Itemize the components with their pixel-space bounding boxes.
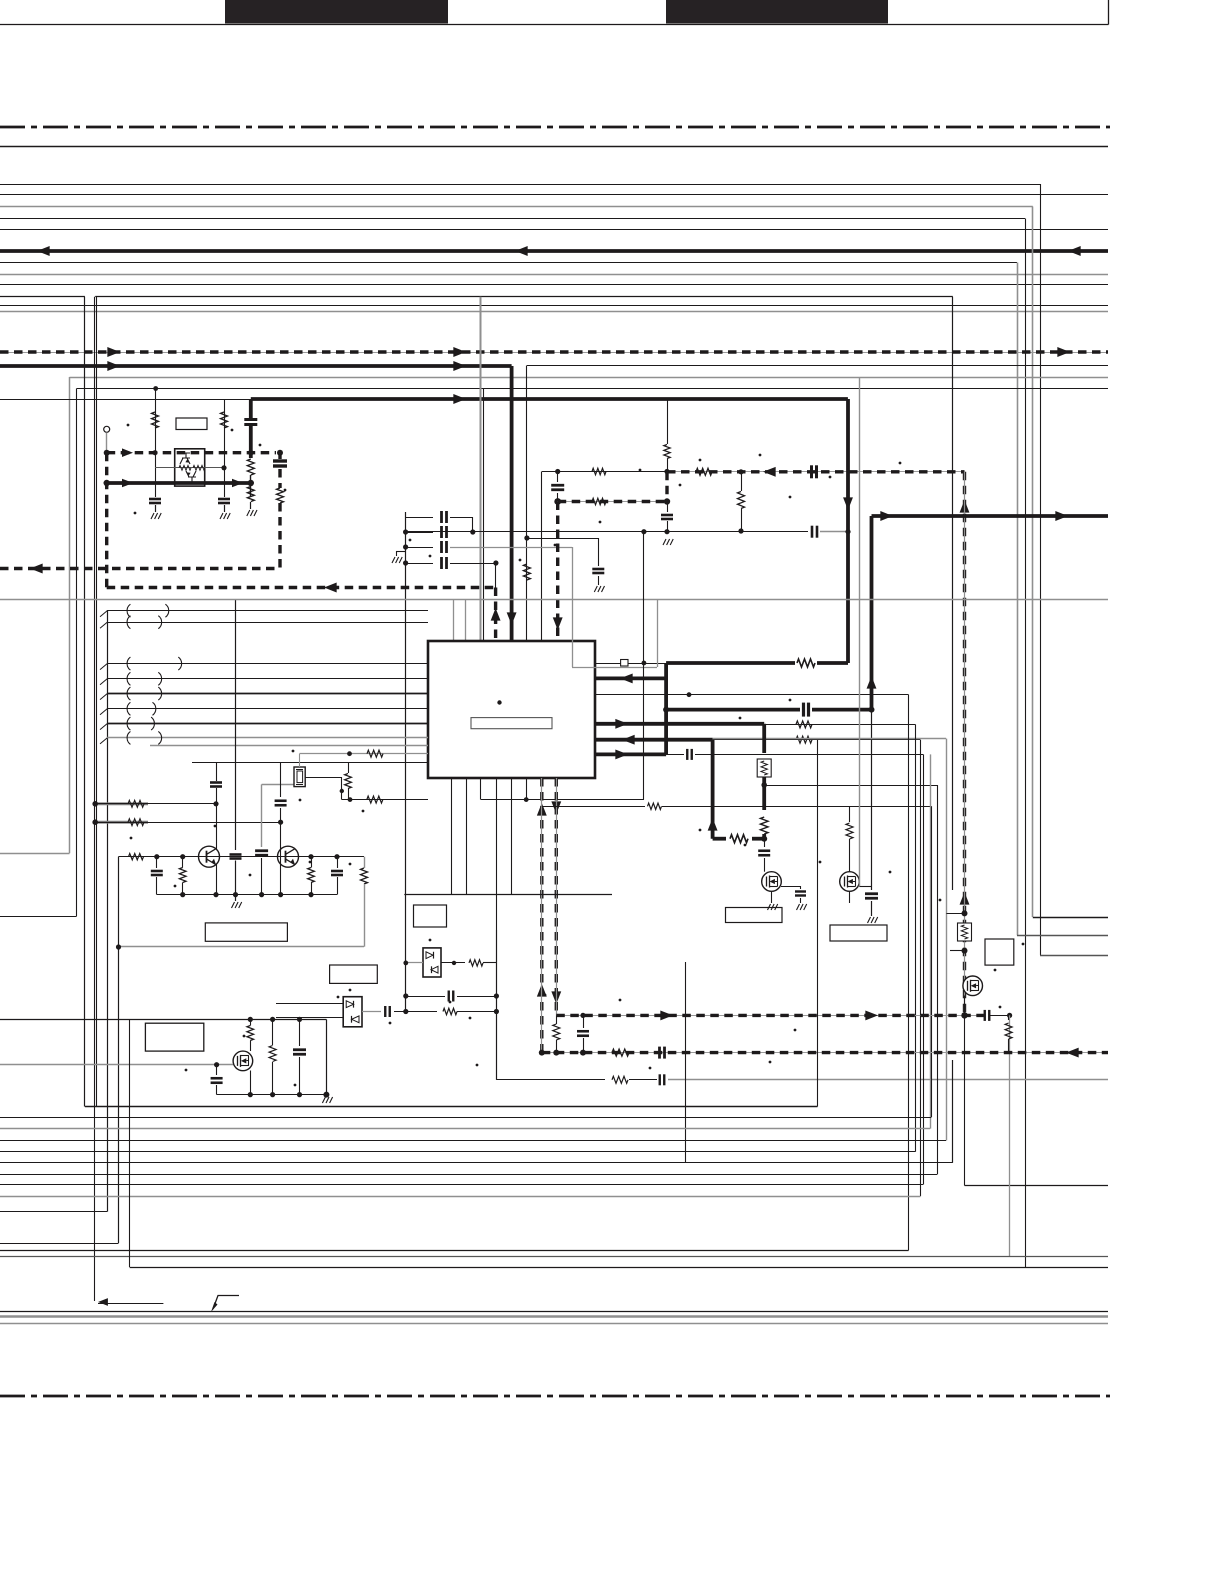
bus return y1106.5 [85, 1106, 818, 1108]
MOSFET Q6 [233, 1051, 253, 1071]
riser x685.8 [685, 962, 687, 1163]
dashed left edge x106.7 [105, 453, 108, 588]
gray y738.6 [713, 738, 947, 740]
dashed pin x541.8 down [540, 778, 543, 1053]
thick pin y723.8 to riser [595, 722, 764, 726]
net y471.5 thin with resistor [542, 471, 667, 473]
dashed underlay x556.3 gray [556, 778, 558, 1015]
gray leg x261.6 with cap [261, 784, 263, 847]
IC input gray y745.6 [150, 745, 428, 747]
IC input gray y753.7 with resistor [300, 753, 429, 755]
box left edge x84.9 [84, 297, 86, 1107]
riser x496.4 [496, 930, 498, 1080]
thin continuation y365.5 [527, 365, 1108, 367]
diode pack D3 [343, 997, 362, 1027]
wrap riser x908.6 [908, 695, 910, 1251]
box A right edge x952.8 [952, 297, 954, 890]
boxed resistor on dashed [958, 923, 972, 941]
wrap riser x930.1 gray [930, 754, 932, 1128]
rail y1311 [0, 1311, 1108, 1313]
dashed link x667 [665, 472, 668, 502]
IC input wire 3 [100, 664, 107, 670]
crystal X1 [294, 767, 305, 787]
wrap riser x931.4 [931, 806, 933, 1117]
wrap bus left edge x69.5 gray [69, 377, 71, 853]
thick IC pin y678.4 [595, 677, 666, 681]
crystal top pin [299, 754, 301, 767]
redacted title block 1 [225, 0, 448, 24]
bus return y1162.7 [0, 1162, 953, 1164]
feed y803.8 with resistor [95, 802, 148, 805]
net y785 from riser [764, 785, 937, 787]
cap leg x156.8 [156, 857, 158, 868]
bus return y1140.4 [0, 1140, 946, 1142]
net y531.7 with cap [406, 531, 644, 533]
label box Q5 [145, 1023, 203, 1051]
resistor x250.3 [247, 1026, 254, 1041]
title bar line [0, 24, 1109, 26]
cap leg x337 [337, 857, 339, 868]
IC input wire 2 [100, 622, 107, 628]
page frame right edge [1108, 0, 1110, 25]
label box RL1 [176, 418, 207, 430]
net y799.6 with resistor to IC [342, 799, 428, 801]
wire y399 thin left part [0, 399, 251, 401]
bus return y1184.5 [0, 1184, 923, 1186]
thick riser x764.2 with boxed resistor [762, 724, 766, 753]
section divider dash-dot top [0, 126, 1110, 129]
dashed row y501.5 [558, 501, 667, 503]
opto internal base line with zigzags [155, 467, 224, 469]
feed y822.2 with resistor [95, 821, 148, 824]
thick riser x712.6 up arrow [711, 740, 715, 839]
link x964.5 down [964, 996, 966, 1186]
right riser x1032.8 gray [1032, 207, 1034, 918]
IC pin x480.9 down [480, 778, 482, 800]
resistor x1008.6 [1008, 1015, 1010, 1020]
wire terminal stub gray [106, 432, 108, 452]
net y799.6 under IC [481, 799, 644, 801]
wire y935.2 gray to edge [1017, 935, 1108, 937]
terminal circle [104, 426, 110, 432]
thick pin y754.4 [595, 753, 666, 757]
redacted title block 2 [666, 0, 888, 24]
riser x643.9 [643, 532, 645, 800]
IC U1 main block [428, 641, 595, 778]
riser x129.6 [129, 1019, 131, 1267]
IC pin x496.8 down [496, 778, 498, 1080]
IC input y762.5 [192, 762, 428, 764]
cap x667 bottom to ground [667, 502, 669, 513]
stub y916.1 [0, 916, 77, 918]
resistor column x155 [153, 386, 158, 391]
center leg x235.5 to ground [235, 600, 237, 850]
thick rail x511.6 into IC [510, 366, 514, 641]
label box Q3 [726, 908, 783, 923]
dashed stub y913.4 [946, 913, 964, 915]
bus return y1151.7 [0, 1151, 915, 1153]
gray box border [572, 547, 574, 667]
horizontal rule under divider [0, 146, 1108, 148]
underlay x964.5 gray [964, 472, 966, 1016]
dashed branch x280 with cap and resistor [278, 453, 281, 459]
designator dots [130, 837, 133, 840]
thick net y709.6 with cap [666, 708, 800, 712]
cap x299.5 [299, 1019, 301, 1046]
dashed return y587.5 from IC [107, 586, 496, 589]
resistor leg x182.7 [179, 868, 186, 883]
wrap bus left edge x76.6 [76, 389, 78, 917]
bus wire y206.5 gray [0, 206, 1033, 208]
gray top pin x453.5 [453, 600, 455, 641]
label box Q7 [985, 939, 1014, 965]
resistor x272.6 [272, 1019, 274, 1045]
signal bus y366 thick with right arrows [0, 364, 512, 368]
resistor x667 top [667, 400, 669, 444]
bus wire y311.5 gray [0, 311, 1108, 313]
thick riser x250.8 with cap and resistors [249, 399, 253, 418]
dashed net y1015.4 [556, 1015, 984, 1017]
bus wire y284.5 [0, 284, 1108, 286]
net y806.3 with resistor [542, 806, 645, 808]
net y962.9 with resistor [406, 962, 423, 964]
supply rail y1019.4 [0, 1019, 326, 1021]
gray top pin x465.8 [465, 600, 467, 641]
section divider dash-dot bottom [0, 1395, 1110, 1398]
wrap riser x915.3 [915, 724, 917, 1151]
cap bank rail x405.6 long vertical [405, 512, 407, 1012]
resistor x556.3 under corner [553, 1024, 560, 1040]
gate net y1064.7 gray [0, 1064, 233, 1066]
riser x1009.6 gray down [1009, 1015, 1011, 1256]
rail y1316.5 gray thick [0, 1315, 1108, 1318]
gray rail x480.9 into IC [480, 297, 482, 641]
dashed net y1052.6 [542, 1052, 1108, 1054]
net y1079.8 resistor cap [496, 1079, 605, 1081]
label box Q1Q2 [205, 923, 287, 941]
bus wire y274 gray [0, 274, 1108, 276]
branch y538 to cap-ground [527, 538, 598, 540]
IC pin x526.2 down [526, 778, 528, 800]
ground leg x326.4 [326, 1019, 328, 1096]
stub y853.3 gray [0, 853, 70, 855]
gray link y784.4 [262, 784, 294, 786]
vertical resistor x348 [348, 763, 350, 774]
net y1185.5 to edge [965, 1185, 1109, 1187]
gate cap x216.6 [216, 1065, 218, 1075]
dashed underlay x541.8 gray [541, 778, 543, 1053]
label box small [330, 965, 378, 983]
box A top edge y296.7 [95, 296, 953, 298]
IC input wire 8 gray [100, 738, 107, 744]
cap bank ground [396, 551, 406, 553]
thin y754.4 cap link [666, 754, 684, 756]
dashed pin x495.6 from IC up [494, 588, 497, 642]
MOSFET Q4 chain [849, 806, 851, 822]
bus wire y194.6 [0, 194, 1108, 196]
shield box top y894 [404, 894, 612, 896]
stub y1243 [0, 1243, 119, 1245]
dashed pin x557.7 into IC [554, 498, 561, 505]
gray drop x859 [859, 377, 861, 886]
stub y950.6 [950, 950, 965, 952]
thick riser x848 from y399 [846, 399, 850, 663]
thick riser x871.5 [870, 516, 874, 710]
riser x817.5 [817, 740, 819, 1107]
IC input wire 4 [100, 679, 107, 685]
IC pin x466 down [466, 778, 468, 894]
thick net y663 with resistor [666, 661, 795, 665]
thin y724.4 with resistor [764, 724, 915, 726]
dashed return y568.5 to left edge [0, 567, 280, 570]
power trace y399 thick [251, 397, 848, 401]
D3 input wires [276, 1003, 343, 1005]
base net y856.7 [118, 856, 364, 858]
bus cable spine x107.2 [107, 610, 109, 1212]
cap bank row y517 [406, 517, 433, 519]
IC label box [471, 718, 552, 729]
rail y1323.5 gray [0, 1323, 1108, 1325]
cap on net y1015.4 [984, 1010, 986, 1021]
right leg x364 resistor [364, 857, 366, 868]
divider below x871.5 [871, 710, 873, 890]
power bus y251 thick with left arrows [0, 249, 1108, 253]
bus wire y229.5 [0, 229, 1108, 231]
thick pin y739.7 [595, 738, 713, 742]
collector x216 [216, 763, 218, 782]
wrap riser x937.1 [937, 785, 939, 1174]
thick trace y516 to edge [872, 514, 1109, 518]
cap bank row y532 [406, 532, 433, 534]
right riser x1025 [1025, 219, 1027, 1268]
wire y917 to edge [1033, 917, 1108, 919]
right riser x1040 [1040, 184, 1042, 955]
box A left edge x95.2 [94, 297, 96, 1301]
source rail y1094.6 [217, 1094, 327, 1096]
bus return y1250.3 [0, 1250, 909, 1252]
transistor Q2 [278, 846, 299, 867]
net y996 with cap [406, 996, 445, 998]
opto drive y483 thick [107, 481, 251, 485]
bus wire y184 [0, 184, 1040, 186]
divider x741 [741, 472, 743, 491]
bus wire y218.5 [0, 218, 1025, 220]
IC input wire 1 [100, 611, 107, 617]
gray rule y599.7 [0, 599, 1108, 601]
net y471.8 dashed with resistor cap [667, 471, 965, 473]
link x495.9 [495, 563, 497, 588]
bus return y1196.2 gray [0, 1196, 920, 1198]
bus return y1128.6 gray [0, 1128, 930, 1130]
right riser x1017 gray [1017, 263, 1019, 936]
opto coupler U3 [175, 449, 205, 486]
box top edge left segment y296.7 [0, 296, 85, 298]
IC pin y663 with connector square [595, 663, 621, 665]
bus return y1267 [130, 1267, 1108, 1269]
box A right edge lower [952, 1060, 954, 1163]
emitter rail y894.6 [157, 894, 337, 896]
diode pack D2 [423, 948, 441, 977]
cap bank row y563 [406, 563, 433, 565]
cap x557.7 [557, 472, 559, 483]
IC pin x511.5 down [511, 778, 513, 894]
cap bank row y547 [406, 547, 433, 549]
MOSFET Q3 chain [764, 839, 766, 847]
signal bus y352 bold dashed with right arrows [0, 352, 1108, 354]
gray net y946.7 [119, 946, 365, 948]
dashed riser x964.5 [963, 472, 966, 1016]
node dashed feed y452.7 [107, 451, 276, 454]
transistor Q1 [199, 846, 220, 867]
label box Q4 [830, 925, 887, 941]
stub y1211.6 [0, 1211, 107, 1213]
thin y739.7 with resistor [713, 739, 921, 741]
box A left edge twin x96.6 [96, 297, 98, 1107]
thick link x666.1 [664, 663, 668, 755]
resistor leg x311 [308, 868, 315, 883]
resistor column x224 [224, 399, 226, 497]
IC input wire 6 [100, 709, 107, 715]
bus wire y305 [0, 305, 1108, 307]
rail x483.9 into IC [483, 389, 485, 642]
bus return y1117 [0, 1117, 931, 1119]
off-page flag symbol [213, 1296, 239, 1310]
label box D1 [414, 905, 447, 927]
net y1011.5 cap resistor [362, 1011, 381, 1013]
off-page wire x95.2 arrow [98, 1303, 163, 1305]
wrap bus y377 gray [70, 377, 1109, 379]
leg x280.6 with cap [280, 763, 282, 798]
MOSFET Q7 [963, 976, 983, 996]
crystal right branch [305, 777, 342, 779]
IC pin x451.4 down [451, 778, 453, 894]
thin pin y694.7 [595, 694, 909, 696]
wire y955.1 gray to edge [1040, 955, 1108, 957]
pin x541.9 into IC [541, 472, 543, 642]
cable spine x118.5 [118, 857, 120, 1243]
wrap riser x920.3 [920, 740, 922, 1196]
bus wire y262.5 [0, 262, 1017, 264]
dashed pin x556.3 down [555, 778, 558, 1015]
thick loop bottom y838.7 with resistor [713, 837, 726, 841]
wrap bus y388.5 [77, 388, 1108, 390]
IC input wire 7 [100, 724, 107, 730]
bus return y1174.4 [0, 1174, 937, 1176]
pin x526.9 with resistor [526, 366, 528, 642]
IC input wire 5 [100, 694, 107, 700]
wrap riser x946.1 gray [946, 739, 948, 1141]
wrap riser x923.1 [923, 754, 925, 1184]
cap x583 [583, 1015, 585, 1028]
bus return y1256 gray [0, 1256, 1108, 1258]
